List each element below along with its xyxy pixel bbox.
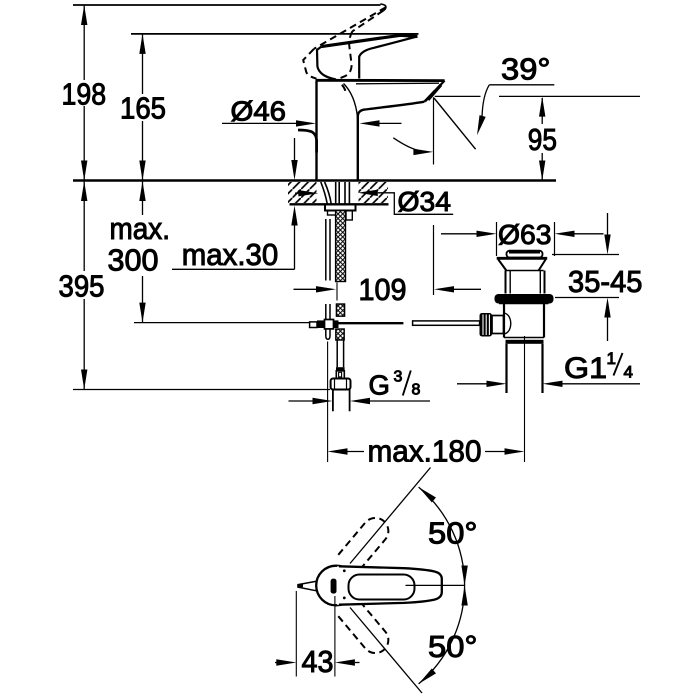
mounting flange below deck bbox=[325, 205, 356, 211]
dimension Ø34 arrows at deck and leader bbox=[295, 192, 300, 194]
dimension max.300 line bbox=[142, 181, 144, 323]
aerator dark bars bbox=[428, 85, 441, 100]
svg-text:max.180: max.180 bbox=[368, 434, 482, 468]
svg-text:35-45: 35-45 bbox=[568, 265, 643, 299]
vertical extension line from aerator bbox=[433, 97, 435, 295]
drain valve neck bbox=[506, 271, 545, 294]
spout underside and body right edge bbox=[358, 102, 425, 181]
dimension G1 1/4 arrows bbox=[457, 383, 487, 385]
top view spout beak bbox=[298, 581, 316, 591]
knob connector housing bbox=[492, 316, 504, 334]
flow arc with arrow under spout bbox=[393, 138, 424, 152]
svg-text:39°: 39° bbox=[501, 52, 551, 86]
braided hose lower sections bbox=[336, 304, 344, 316]
svg-text:G: G bbox=[369, 369, 390, 400]
drain lower collar bbox=[504, 337, 544, 339]
dimension 35-45 arrows bbox=[607, 213, 609, 236]
dimension Ø63 arrows bbox=[441, 233, 477, 235]
svg-text:109: 109 bbox=[359, 273, 407, 307]
reference line top of lowered lever bbox=[131, 33, 419, 35]
dimension G3/8 arrows bbox=[289, 400, 317, 402]
G3/8 threaded end tube bbox=[333, 390, 350, 412]
dimension 35-45 extension lines bbox=[552, 255, 619, 298]
hose smooth end tube bbox=[337, 340, 343, 367]
dimension 165 line bbox=[142, 34, 144, 181]
drain valve seal flange O-ring bbox=[495, 294, 554, 304]
dimension 43 arrows bbox=[275, 662, 277, 664]
svg-text:1: 1 bbox=[607, 349, 616, 368]
svg-text:50°: 50° bbox=[428, 516, 478, 550]
dimension max.30 lower arrow and leader bbox=[291, 206, 297, 226]
dimension Ø63 extension lines bbox=[497, 222, 555, 256]
svg-text:3: 3 bbox=[394, 369, 403, 386]
top view body circle bbox=[316, 566, 356, 606]
pull rod knob bbox=[480, 313, 493, 337]
drain valve cap bbox=[497, 257, 548, 260]
pop-up lever horizontal rod bbox=[339, 322, 404, 324]
svg-text:95: 95 bbox=[528, 123, 557, 157]
svg-text:300: 300 bbox=[108, 244, 159, 278]
reference line top of raised handle bbox=[73, 4, 381, 6]
spout end face bbox=[424, 81, 444, 102]
dimension 95 line bbox=[541, 98, 543, 180]
svg-text:8: 8 bbox=[412, 381, 421, 398]
handle left edge bbox=[317, 47, 336, 80]
top view lever inner surface bbox=[349, 575, 415, 600]
dimension 43 extension lines bbox=[296, 591, 335, 677]
svg-text:Ø34: Ø34 bbox=[398, 186, 452, 217]
top view joint dots bbox=[343, 569, 346, 572]
handle lever blade top edge bbox=[321, 35, 417, 46]
deck section hatching left of faucet bbox=[288, 182, 317, 203]
drain valve lift knob pill bbox=[507, 251, 543, 258]
dimension 198 line bbox=[83, 5, 85, 181]
svg-text:165: 165 bbox=[120, 92, 166, 126]
drain centerline bbox=[524, 336, 526, 462]
pop-up lever clamp joint bbox=[310, 322, 317, 328]
svg-text:Ø63: Ø63 bbox=[498, 219, 552, 250]
drain tailpipe G1 1/4 bbox=[507, 344, 543, 393]
svg-text:G1: G1 bbox=[564, 352, 607, 385]
swing arc upper with arrows bbox=[419, 487, 465, 585]
reference line hose connection level (max.300) bbox=[134, 322, 310, 324]
top view pivot pin mark bbox=[331, 579, 337, 594]
top view 50 degree swing line upper bbox=[350, 468, 431, 564]
svg-text:4: 4 bbox=[624, 363, 633, 382]
countertop deck top line bbox=[73, 179, 556, 182]
handle lever underside and neck bbox=[359, 36, 417, 78]
bottom reference line for 395 bbox=[73, 389, 330, 391]
countertop deck bottom line bbox=[290, 203, 389, 205]
dimension 395 line bbox=[83, 181, 85, 390]
dimension Ø46 leader and arrows bbox=[222, 122, 297, 124]
svg-text:max.30: max.30 bbox=[182, 238, 278, 272]
faucet body and spout top edge bbox=[316, 79, 445, 82]
pop-up rod lower section with rounded end bbox=[326, 304, 330, 339]
top view lever fill bbox=[337, 566, 442, 604]
svg-text:198: 198 bbox=[62, 78, 107, 112]
deck section hatching right of faucet bbox=[359, 182, 389, 203]
G3/8 hose nut bbox=[331, 379, 351, 390]
faucet body left edge bbox=[315, 81, 317, 181]
top view lever outline bbox=[339, 566, 442, 604]
swing arc lower with arrows bbox=[419, 586, 465, 684]
dimension max.180 line and arrows bbox=[328, 448, 348, 454]
pop-up rod upper section bbox=[326, 219, 330, 281]
dimension 39 degrees shelf and arc leader bbox=[489, 84, 554, 86]
raised handle tip bbox=[380, 4, 386, 11]
dimension max.30 upper arrow bbox=[294, 138, 296, 161]
spout top inner line bbox=[356, 82, 439, 85]
dimension 109 line bbox=[294, 288, 317, 290]
top view centerline bbox=[406, 584, 465, 586]
dimension max.180 extension lines bbox=[327, 342, 329, 463]
top view 50 degree swing line lower bbox=[350, 608, 422, 694]
top view dashed lever raised position lower bbox=[338, 600, 388, 654]
svg-text:395: 395 bbox=[59, 270, 105, 304]
svg-text:Ø46: Ø46 bbox=[231, 96, 287, 127]
water economy hook on body bbox=[298, 130, 317, 153]
body spout root curve bbox=[344, 84, 358, 118]
drain valve body bbox=[504, 304, 544, 338]
svg-text:50°: 50° bbox=[428, 630, 478, 664]
svg-text:max.: max. bbox=[110, 212, 171, 246]
braided supply hose upper section bbox=[336, 211, 346, 282]
shank parts inside deck hole bbox=[321, 182, 331, 204]
svg-text:43: 43 bbox=[302, 645, 334, 679]
dimension 95 extension line bbox=[435, 95, 640, 97]
raised handle dashed outline bbox=[303, 7, 386, 91]
top view dashed lever raised position upper bbox=[338, 518, 388, 572]
ball joint socket arc bbox=[505, 313, 511, 334]
stream direction line at 39 degrees bbox=[434, 98, 476, 149]
